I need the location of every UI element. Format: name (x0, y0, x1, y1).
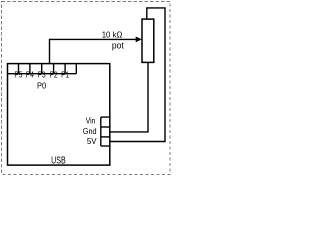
svg-text:USB: USB (51, 155, 66, 166)
svg-text:Gnd: Gnd (83, 126, 97, 136)
svg-text:Vin: Vin (86, 115, 96, 125)
svg-text:P2: P2 (50, 71, 58, 80)
svg-text:P1: P1 (61, 71, 69, 80)
svg-text:10 kΩ: 10 kΩ (102, 29, 123, 39)
svg-text:P5: P5 (14, 71, 23, 80)
svg-text:P0: P0 (37, 81, 46, 91)
svg-text:5V: 5V (87, 136, 97, 146)
svg-text:P4: P4 (26, 71, 35, 80)
svg-text:P3: P3 (38, 71, 46, 80)
svg-text:pot: pot (112, 41, 124, 52)
